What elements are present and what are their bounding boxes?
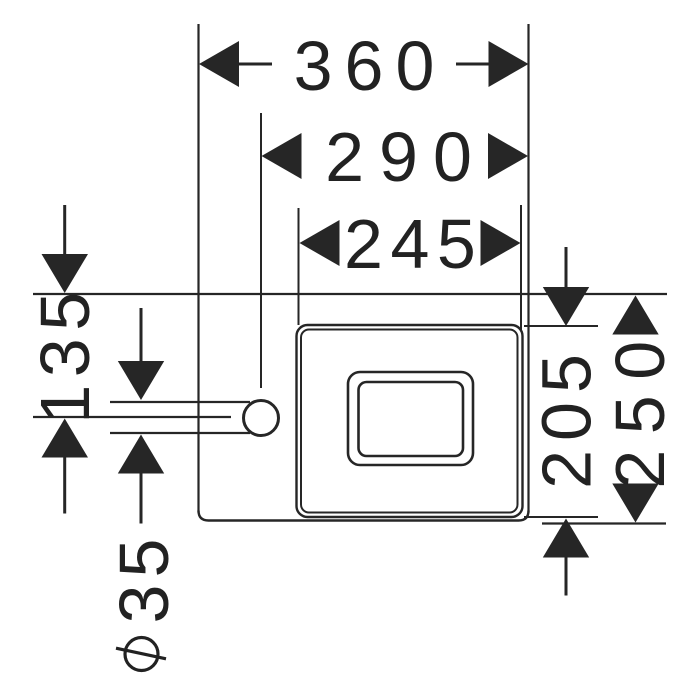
basin bottom edge extension to right (205 bottom tick)	[524, 516, 598, 518]
dim 245 right arrow	[481, 220, 521, 266]
dim 250 bottom arrow (down)	[612, 484, 658, 523]
diameter symbol slash	[116, 648, 166, 659]
faucet hole circle	[244, 401, 279, 436]
svg-text:135: 135	[26, 284, 104, 423]
drain window inner rounded rect	[359, 382, 464, 456]
svg-text:35: 35	[105, 532, 183, 624]
basin top edge extension to right (205 top tick)	[524, 325, 598, 327]
dim 360 right arrow	[489, 41, 529, 87]
dim 360 left tail	[239, 63, 272, 66]
extension line for 290 left (faucet hole center)	[260, 113, 262, 388]
body bottom edge with rounded corners	[199, 511, 529, 521]
dim 205 top tail	[565, 247, 568, 288]
dim 205 bottom tail	[565, 558, 568, 596]
dim 290 right arrow	[488, 133, 528, 179]
svg-text:205: 205	[528, 345, 606, 489]
basin box outer outline	[297, 325, 523, 517]
diameter symbol circle	[125, 638, 158, 671]
dim 135 bottom arrow (up)	[42, 419, 89, 458]
dim 245 left arrow	[300, 220, 340, 266]
svg-text:250: 250	[601, 325, 679, 488]
dim D35 top arrow (down)	[118, 361, 164, 400]
dim 135 top tail	[63, 205, 66, 255]
hole diameter top tangent line	[110, 401, 250, 403]
hole center line (135 bottom boundary)	[33, 416, 231, 418]
extension line for 245 left	[298, 208, 300, 325]
hole diameter bottom tangent line	[110, 432, 250, 434]
drain window outer rounded rect	[348, 372, 473, 465]
svg-text:245: 245	[344, 205, 483, 283]
dim D35 bottom arrow (up)	[118, 435, 164, 474]
dim 290 left arrow	[262, 133, 302, 179]
basin box inner wall line	[301, 330, 518, 513]
body right edge with extension line	[527, 24, 529, 513]
svg-text:360: 360	[294, 27, 447, 105]
250 bottom boundary line	[542, 522, 666, 524]
dim 250 top arrow (up)	[612, 296, 658, 335]
top surface line (full width)	[33, 293, 667, 295]
svg-text:290: 290	[325, 118, 487, 196]
body left edge with extension line	[197, 24, 199, 513]
dim 360 right tail	[456, 63, 489, 66]
dim 135 bottom tail	[63, 458, 66, 514]
dim 205 top arrow (down)	[543, 287, 589, 326]
dim 135 top arrow (down)	[42, 254, 89, 293]
dim 360 left arrow	[199, 41, 239, 87]
extension line for 245 right	[520, 205, 522, 330]
dim D35 top tail	[140, 308, 143, 362]
dim 205 bottom arrow (up)	[543, 519, 589, 558]
dim D35 bottom tail	[140, 474, 143, 524]
